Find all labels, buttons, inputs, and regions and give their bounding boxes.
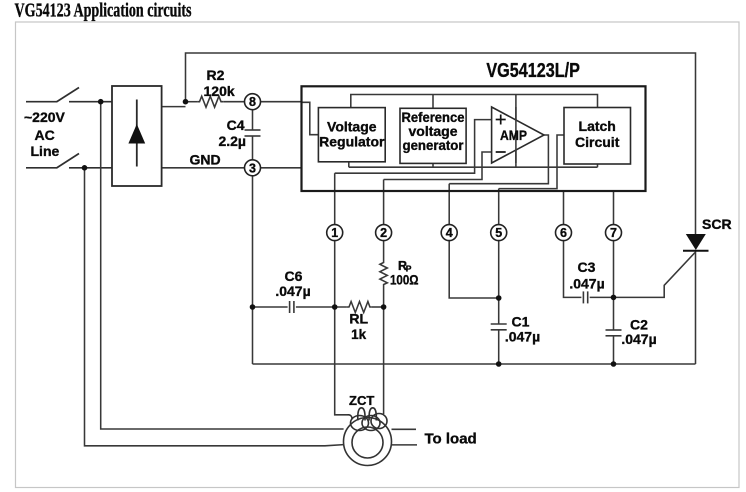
IC package box [302, 86, 646, 191]
wire VR bottom riser [348, 162, 350, 167]
svg-text:8: 8 [249, 95, 256, 109]
wire SCR cathode down to bus [695, 251, 697, 364]
wire GND rail rectifier to pin3 [162, 167, 245, 169]
wire pin4 down and right to pin5 line [449, 240, 499, 298]
wire pin1 node down to ZCT [335, 307, 348, 415]
wire pin6 riser [563, 191, 565, 225]
wire pin4 riser inside IC [448, 184, 450, 225]
pin 1 [327, 225, 343, 241]
svg-text:R2: R2 [207, 67, 225, 83]
capacitor C2 plates [606, 330, 622, 336]
wire RL to pin2 node [372, 306, 384, 308]
svg-text:Line: Line [31, 143, 60, 159]
wire C2 to bus [613, 336, 615, 364]
pin 6 [556, 225, 572, 241]
node dot pin4-5 [496, 295, 502, 301]
wire neutral down-left loop to ZCT lower [85, 168, 344, 446]
node dot C1 bus [496, 361, 502, 367]
pin 3 [245, 160, 261, 176]
svg-text:Circuit: Circuit [575, 134, 620, 150]
wire pin3 to IC [261, 167, 302, 169]
wire Latch bottom riser [597, 164, 599, 167]
node dot live switch [98, 99, 104, 105]
wire ZCT upper right to load [392, 428, 417, 430]
wire C3 to pin7 line [590, 296, 614, 298]
svg-text:generator: generator [403, 137, 465, 153]
svg-text:2: 2 [380, 226, 387, 240]
svg-text:3: 3 [249, 161, 256, 175]
wire top bus [186, 53, 696, 234]
svg-text:Voltage: Voltage [327, 119, 377, 135]
svg-text:To load: To load [425, 431, 477, 448]
SCR thyristor [686, 234, 706, 250]
wire pin2 riser inside IC [383, 180, 385, 225]
svg-text:.047µ: .047µ [505, 329, 540, 345]
wire R2 to pin8 [223, 101, 244, 103]
wire bottom bus [253, 363, 696, 365]
wire pin1 riser inside IC [334, 173, 336, 225]
svg-text:C3: C3 [578, 259, 596, 275]
switch S2 (neutral) [26, 154, 112, 169]
svg-text:C6: C6 [285, 268, 303, 284]
latch circuit box [564, 108, 631, 165]
switch S1 (line) [26, 88, 112, 102]
svg-text:120k: 120k [204, 83, 235, 99]
wire live down-left loop to ZCT upper [101, 102, 344, 429]
wire C1 to bus [498, 330, 500, 364]
svg-text:1k: 1k [351, 327, 367, 342]
wire pin2 node down to ZCT coil [383, 307, 385, 414]
wire pin2 to RP [383, 240, 385, 261]
node dot C3-pin7 [611, 295, 617, 301]
pin 5 [491, 225, 507, 241]
svg-text:AMP: AMP [500, 127, 527, 143]
svg-text:RL: RL [349, 311, 368, 327]
wire amp output to pin4 [449, 135, 548, 184]
svg-text:2.2µ: 2.2µ [218, 133, 246, 149]
pin 7 [606, 225, 622, 241]
svg-text:1: 1 [331, 226, 338, 240]
pin 4 [441, 225, 457, 241]
pin 2 [376, 225, 392, 241]
wire pin5 down to C1 [498, 240, 500, 324]
pin 8 [245, 94, 261, 110]
resistor RL zigzag [347, 302, 372, 313]
svg-text:~220V: ~220V [24, 109, 66, 125]
node dot R2-top [183, 99, 189, 105]
resistor RP zigzag [380, 261, 387, 286]
node dot C6 left [250, 304, 256, 310]
wire C6 right lead [296, 306, 347, 308]
svg-text:Regulator: Regulator [319, 134, 385, 150]
resistor R2 zigzag [197, 96, 223, 107]
wire amp plus input to pin1 [335, 120, 492, 174]
capacitor C6 plates [290, 301, 294, 313]
svg-text:.047µ: .047µ [569, 276, 604, 292]
svg-text:4: 4 [446, 226, 453, 240]
svg-text:5: 5 [495, 226, 502, 240]
ZCT winding coil [348, 408, 388, 431]
wire pin8 into VR [302, 102, 319, 134]
rectifier bridge [112, 86, 162, 186]
svg-text:100Ω: 100Ω [390, 273, 419, 288]
wire SCR gate [614, 253, 696, 298]
voltage regulator box U-block [318, 108, 385, 162]
wire rectifier output to R2 node [162, 106, 186, 108]
node dot neutral switch [82, 165, 88, 171]
capacitor C4 leads [252, 110, 254, 130]
svg-text:VG54123L/P: VG54123L/P [486, 60, 580, 82]
svg-text:Latch: Latch [579, 118, 616, 134]
svg-text:VG54123 Application circuits: VG54123 Application circuits [15, 0, 192, 21]
svg-text:GND: GND [190, 152, 221, 168]
reference voltage generator box [400, 108, 466, 163]
svg-text:.047µ: .047µ [621, 331, 656, 347]
capacitor C4 plates [245, 130, 261, 136]
wire IC internal ref drop [432, 95, 434, 109]
wire pin7 riser [613, 191, 615, 225]
wire pin7 down to C2 [613, 240, 615, 330]
svg-text:.047µ: .047µ [275, 283, 310, 299]
node dot pin1 bottom [332, 304, 338, 310]
node dot pin2 bottom [381, 304, 387, 310]
svg-text:ZCT: ZCT [349, 393, 374, 408]
wire pin8 to IC [261, 101, 302, 103]
amp minus sign [496, 151, 506, 153]
svg-text:SCR: SCR [702, 216, 732, 232]
amp plus sign [496, 115, 506, 153]
wire pin5 riser inside IC [498, 189, 500, 225]
capacitor C1 plates [491, 324, 507, 330]
wire amp minus input to pin2 [384, 152, 492, 180]
wire pin1 down to node [334, 240, 336, 307]
wire Ref bottom riser [432, 163, 434, 167]
op-amp AMP triangle [492, 107, 544, 163]
wire R2 left lead [186, 101, 198, 103]
wire pin6 down to C3 [564, 240, 582, 297]
wire IC internal through-amp drop [515, 95, 517, 168]
svg-text:6: 6 [560, 226, 567, 240]
svg-text:7: 7 [610, 226, 617, 240]
wire IC internal top bus [351, 95, 598, 108]
node dot C2 bus [611, 361, 617, 367]
svg-text:C4: C4 [227, 117, 245, 133]
wire pin3 down to C6 node and bottom bus [252, 176, 254, 364]
wire ZCT lower right to load [392, 444, 418, 446]
wire through-amp overdraw [515, 107, 517, 163]
wire RP to node [383, 286, 385, 308]
wire latch input to pin5 [499, 135, 564, 189]
wire C6 left lead [253, 306, 288, 308]
ZCT transformer core [344, 418, 392, 466]
svg-text:C1: C1 [512, 314, 530, 330]
wire IC internal W1 rail [349, 166, 598, 168]
svg-text:AC: AC [35, 127, 55, 143]
capacitor C3 plates [583, 291, 587, 303]
